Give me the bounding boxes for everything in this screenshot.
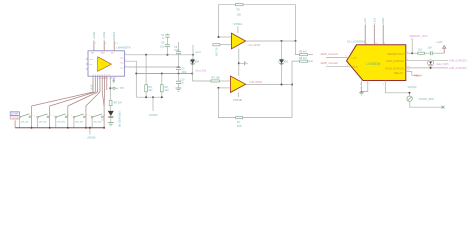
capacitor C8 (165, 44, 170, 46)
svg-text:V354A: V354A (233, 22, 242, 26)
label box TONE (10, 116, 19, 119)
svg-text:SW_M4: SW_M4 (75, 122, 84, 124)
svg-text:LM4950TA: LM4950TA (116, 46, 130, 50)
wire box to bus (14, 120, 16, 128)
svg-text:GND: GND (381, 18, 385, 24)
resistor R4 (211, 80, 219, 82)
wire diode D5 col (281, 41, 283, 60)
wire R4 to B (219, 80, 230, 82)
wire R10 bottom (161, 92, 163, 98)
wire R9 bottom (145, 92, 147, 98)
svg-text:12V/5V: 12V/5V (407, 85, 416, 89)
node spk (109, 87, 111, 89)
resistor R12 (418, 52, 425, 54)
U1 top pins (364, 25, 366, 45)
svg-text:DEFEAT/OUT: DEFEAT/OUT (387, 52, 404, 56)
svg-text:Gnd_Det: Gnd_Det (195, 69, 206, 73)
svg-text:+12V: +12V (363, 17, 367, 24)
svg-text:+12Va: +12Va (92, 31, 96, 39)
svg-text:+12V: +12V (90, 84, 94, 90)
ground spk (108, 122, 114, 124)
svg-text:IN+: IN+ (89, 59, 93, 61)
wire jack down (410, 101, 443, 107)
IC U3 audio amplifier box (88, 51, 124, 76)
LED DL1 (428, 60, 434, 66)
U2B stub (237, 92, 239, 97)
svg-text:R8 4k7: R8 4k7 (299, 56, 308, 60)
svg-text:TP1: TP1 (120, 86, 125, 90)
svg-text:10K: 10K (237, 13, 242, 17)
power flag +12V (443, 48, 445, 53)
bus bottom (15, 127, 104, 129)
wire bottom join (136, 96, 162, 98)
capacitor C10 (178, 74, 180, 81)
svg-text:VO: VO (111, 53, 115, 55)
wire spk gnd (110, 118, 112, 123)
svg-text:DTMF: DTMF (11, 112, 19, 116)
svg-text:RC: RC (165, 85, 169, 89)
U2A stub (237, 27, 239, 34)
wire inv input A (219, 36, 232, 38)
svg-text:AGND: AGND (87, 136, 95, 140)
switch row SW1-SW5 (16, 114, 33, 128)
svg-text:LV339DM: LV339DM (366, 62, 380, 66)
svg-text:+12V: +12V (372, 17, 376, 24)
svg-text:R7: R7 (237, 120, 241, 124)
svg-text:10K: 10K (237, 124, 242, 128)
svg-text:+AM_DUPLEX: +AM_DUPLEX (448, 66, 467, 70)
wire R12 to C (425, 52, 430, 54)
svg-text:Gnd: Gnd (196, 50, 201, 54)
wire noninv input B (218, 87, 230, 89)
wire noninv input A (220, 44, 232, 46)
svg-text:100n: 100n (174, 49, 180, 52)
wire mid power col (238, 49, 240, 76)
wire defeat out (406, 52, 418, 54)
svg-text:AMP_Current: AMP_Current (321, 52, 339, 56)
capacitor C6 (176, 66, 181, 68)
svg-text:C8: C8 (161, 41, 165, 45)
no connect X (442, 106, 445, 109)
resistor R9 (145, 85, 148, 92)
wire fb loop A right (243, 5, 295, 41)
wire inv input B (192, 80, 211, 82)
wire fb loop A (219, 5, 236, 37)
wire to R10 (161, 74, 163, 85)
svg-text:D4: D4 (196, 59, 200, 63)
svg-text:100n: 100n (181, 71, 187, 74)
svg-text:V354B: V354B (233, 98, 242, 102)
wire AGND drop (152, 97, 154, 111)
diode D5 (279, 59, 284, 64)
wire defeat up (411, 39, 413, 54)
svg-text:RELAY: RELAY (394, 71, 403, 75)
svg-text:R9: R9 (148, 85, 152, 89)
resistor R8 (300, 60, 308, 62)
resistor R2 (236, 4, 244, 6)
op-amp U2B (231, 76, 246, 92)
svg-text:HIGH: HIGH (352, 66, 358, 68)
bus AGND drop (89, 128, 91, 135)
svg-text:1k0: 1k0 (165, 88, 170, 92)
pwr arrow spk (113, 80, 115, 83)
svg-text:AGND: AGND (149, 113, 159, 117)
wire R6 out (308, 54, 314, 56)
U3 top power pins (94, 41, 114, 51)
capacitor C4 (166, 34, 168, 35)
svg-text:SPEAKER 8R: SPEAKER 8R (117, 111, 121, 127)
svg-text:LOW: LOW (352, 58, 358, 60)
wire U1 in high (326, 65, 351, 67)
resistor R1 (213, 44, 220, 46)
wire U1 in low (326, 57, 349, 59)
svg-text:+AM_DUPLEX: +AM_DUPLEX (448, 59, 467, 63)
capacitor C11 (429, 51, 431, 55)
resistor R7 (236, 117, 243, 119)
wire U3 out1 (124, 54, 193, 56)
svg-text:SW_M1: SW_M1 (21, 122, 30, 124)
svg-text:R2: R2 (237, 7, 241, 11)
wire U3 out2 bend (124, 61, 136, 97)
U3 pin labels (89, 53, 124, 77)
wire mid dark (136, 73, 192, 75)
svg-text:R1 10K: R1 10K (214, 48, 218, 57)
svg-text:2k2: 2k2 (418, 48, 423, 52)
U1 gnd stub A (361, 81, 363, 92)
wire R8 out (308, 60, 314, 62)
U3 left pin stubs (86, 58, 88, 60)
svg-text:GNDA: GNDA (112, 32, 116, 40)
capacitor C9 (178, 42, 180, 51)
comparator U1 body (347, 45, 406, 81)
testpoint circle (113, 87, 115, 89)
wire fb loop B (218, 88, 235, 118)
svg-text:SW_M5: SW_M5 (93, 122, 102, 124)
svg-text:10u: 10u (180, 82, 185, 85)
wire out B (246, 84, 292, 86)
svg-text:SW_M3: SW_M3 (57, 122, 66, 124)
wire C to pwr (432, 52, 444, 54)
svg-text:U2B LM358: U2B LM358 (249, 81, 262, 84)
wire high duplex (406, 67, 448, 69)
svg-text:4k7: 4k7 (148, 88, 153, 92)
svg-text:U1 LV339DM: U1 LV339DM (347, 39, 365, 43)
U1 out stub C (385, 81, 409, 96)
svg-text:SW_M2: SW_M2 (39, 122, 48, 124)
wire low duplex (406, 60, 448, 62)
svg-text:8R 2W: 8R 2W (114, 100, 122, 104)
op-amp symbol inside U3 (98, 57, 112, 72)
svg-text:Held_SPK: Held_SPK (436, 62, 449, 66)
svg-text:D5: D5 (285, 60, 289, 64)
wire spk col (109, 76, 111, 100)
wire relay jog (406, 72, 420, 76)
ground C10 (176, 87, 182, 89)
wire to R8 (292, 61, 300, 118)
U1 gnd stub B (362, 81, 368, 92)
speaker LS1 (108, 111, 114, 116)
svg-text:RELAY: RELAY (414, 74, 423, 78)
svg-text:+12Va: +12Va (102, 31, 106, 39)
resistor R10 (160, 85, 163, 92)
resistor R11 (109, 100, 112, 105)
gnd stub mid (239, 62, 244, 64)
switch verticals (31, 106, 33, 128)
wire fb loop B right (243, 117, 292, 119)
svg-text:10n: 10n (160, 45, 165, 49)
wire diode col (192, 45, 194, 60)
ground U1 (359, 91, 364, 93)
svg-text:U2A LM358: U2A LM358 (248, 44, 261, 47)
jack circle (407, 96, 412, 101)
svg-text:LOW_DUPLEX: LOW_DUPLEX (386, 59, 405, 63)
svg-text:TONE: TONE (11, 115, 19, 119)
wire to R6 (296, 41, 300, 55)
resistor R6 (300, 54, 308, 56)
svg-text:BST: BST (101, 53, 106, 55)
svg-text:+12V: +12V (436, 40, 443, 44)
diode D4 (190, 59, 195, 64)
svg-text:AMP_Current: AMP_Current (321, 61, 339, 65)
svg-text:CONN_SPK: CONN_SPK (419, 97, 435, 101)
svg-text:R4 10K: R4 10K (211, 75, 220, 79)
svg-text:10n: 10n (428, 45, 433, 49)
svg-text:IN-: IN- (89, 64, 92, 66)
wire out A (246, 40, 296, 42)
svg-text:R6 4k7: R6 4k7 (299, 49, 308, 53)
wire U3 out3 (124, 66, 178, 68)
label box DTMF (10, 112, 19, 116)
svg-text:LS: LS (101, 119, 104, 122)
U3 top pin labels (92, 31, 116, 39)
svg-text:HIGH_DUPLEX: HIGH_DUPLEX (385, 66, 404, 70)
svg-text:DEFEAT_OUT: DEFEAT_OUT (410, 34, 429, 38)
wire to R9 (145, 55, 147, 85)
op-amp U2A (231, 33, 245, 49)
wire R11 to spk (109, 106, 111, 111)
fan wires IC to switches (92, 76, 94, 92)
